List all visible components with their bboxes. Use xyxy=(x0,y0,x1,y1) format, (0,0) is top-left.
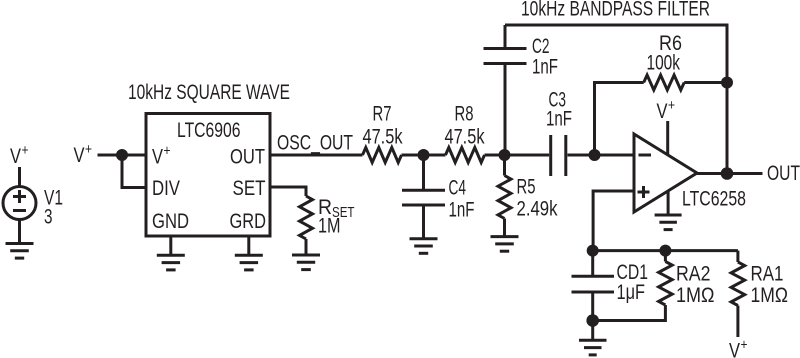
op-amp U2 LTC6258 xyxy=(634,134,697,212)
wire bias rail xyxy=(593,249,738,252)
junction R6/output column xyxy=(721,77,733,89)
svg-text:V: V xyxy=(657,100,668,123)
svg-text:1nF: 1nF xyxy=(449,199,475,222)
wire RA1 to V+ xyxy=(736,306,739,338)
wire RA2 bottom to CD1 bottom xyxy=(593,305,666,321)
wire noninverting input to bias node xyxy=(593,191,634,251)
wire GRD pin to ground xyxy=(247,236,250,255)
resistor R5 xyxy=(498,176,511,219)
svg-text:100k: 100k xyxy=(647,52,681,75)
resistor R6 xyxy=(644,75,685,90)
wire bias node to CD1 xyxy=(591,251,594,277)
wire GND pin to ground xyxy=(169,236,172,255)
wire V+ to V+ pin xyxy=(98,154,147,157)
svg-text:C4: C4 xyxy=(449,177,467,200)
wire RA2 top xyxy=(664,251,667,262)
svg-text:2.49k: 2.49k xyxy=(517,198,558,221)
wire C4 to ground xyxy=(422,205,425,239)
voltage source V1 xyxy=(3,187,36,220)
svg-text:+: + xyxy=(668,97,675,114)
ground (RSET) xyxy=(292,255,320,270)
wire junction to DIV pin xyxy=(122,155,146,188)
resistor RA1 xyxy=(731,262,745,306)
svg-text:R7: R7 xyxy=(373,103,392,126)
resistor RA2 xyxy=(659,262,673,306)
wire R7 to R8 xyxy=(402,154,446,157)
svg-text:GRD: GRD xyxy=(230,210,267,233)
wire node A to C4 xyxy=(422,155,425,190)
net V+ (above V1) xyxy=(10,142,29,168)
svg-text:R5: R5 xyxy=(517,176,536,199)
junction node A xyxy=(418,149,430,161)
ground (op-amp) xyxy=(655,215,682,230)
wire R6 to output column xyxy=(684,81,727,84)
ground (C4) xyxy=(410,239,438,254)
svg-text:RA1: RA1 xyxy=(751,263,784,286)
svg-text:3: 3 xyxy=(44,206,53,229)
wire V+ to V1 xyxy=(18,167,21,187)
wire node B up to C2 xyxy=(504,64,507,156)
net V+ (supply to LTC6906) xyxy=(74,141,93,167)
svg-text:1MΩ: 1MΩ xyxy=(676,284,715,307)
svg-text:SET: SET xyxy=(233,177,266,200)
wire CD1 to ground xyxy=(591,292,594,340)
junction output node xyxy=(721,167,734,180)
resistor R8 xyxy=(446,148,485,163)
svg-text:+: + xyxy=(22,142,29,159)
svg-text:10kHz SQUARE WAVE: 10kHz SQUARE WAVE xyxy=(128,81,290,104)
capacitor CD1 xyxy=(572,276,615,292)
svg-text:47.5k: 47.5k xyxy=(363,126,403,149)
label RSET xyxy=(318,196,355,221)
junction RA2 top xyxy=(659,245,671,257)
wire SET pin to RSET xyxy=(270,187,306,196)
wire node B to R5 xyxy=(503,155,506,176)
capacitor C3 xyxy=(551,135,566,176)
svg-text:V: V xyxy=(729,340,740,358)
resistor R7 xyxy=(363,148,402,163)
svg-text:RA2: RA2 xyxy=(676,263,711,286)
svg-text:10kHz BANDPASS FILTER: 10kHz BANDPASS FILTER xyxy=(521,0,710,21)
svg-text:DIV: DIV xyxy=(152,177,180,200)
svg-text:LTC6906: LTC6906 xyxy=(177,119,241,142)
capacitor C2 xyxy=(484,49,527,64)
svg-text:1MΩ: 1MΩ xyxy=(751,284,789,307)
wire feedback riser xyxy=(595,83,644,156)
svg-text:1nF: 1nF xyxy=(546,108,572,131)
resistor RSET xyxy=(300,196,313,239)
wire op-amp output xyxy=(697,172,763,175)
svg-text:OUT: OUT xyxy=(230,146,265,169)
junction bias node xyxy=(587,245,599,257)
ground (V1) xyxy=(6,244,34,259)
ground (GRD pin) xyxy=(235,255,263,270)
wire V+ to op-amp xyxy=(666,121,669,155)
svg-text:V: V xyxy=(152,146,163,169)
ground (CD1) xyxy=(579,340,607,355)
wire R5 to ground xyxy=(503,219,506,237)
junction node B xyxy=(499,149,511,161)
wire RSET to ground xyxy=(305,239,308,255)
svg-text:1nF: 1nF xyxy=(532,56,558,79)
wire RA1 top xyxy=(736,251,739,262)
wire V1 to ground xyxy=(18,220,21,244)
svg-text:1μF: 1μF xyxy=(617,281,646,304)
wire C2 to top rail xyxy=(504,25,507,49)
svg-text:OSC_OUT: OSC_OUT xyxy=(277,132,353,155)
pin label V+ xyxy=(152,143,171,169)
svg-text:+: + xyxy=(164,143,171,160)
capacitor C4 xyxy=(402,190,445,205)
svg-text:R8: R8 xyxy=(455,103,474,126)
svg-text:+: + xyxy=(741,337,748,354)
svg-text:V: V xyxy=(10,145,21,168)
ground (R5) xyxy=(491,237,519,252)
wire op-amp to ground xyxy=(667,191,670,215)
junction inverting input node xyxy=(589,149,601,161)
wire top rail (C2 to output column) xyxy=(505,25,727,174)
svg-text:LTC6258: LTC6258 xyxy=(682,188,746,211)
net V+ (op-amp supply) xyxy=(657,97,676,123)
svg-text:+: + xyxy=(85,141,92,158)
svg-text:1M: 1M xyxy=(318,215,341,238)
svg-text:OUT: OUT xyxy=(767,162,800,185)
ground (GND pin) xyxy=(157,255,185,270)
svg-text:V: V xyxy=(74,144,85,167)
svg-text:GND: GND xyxy=(152,210,189,233)
wire C3 to inverting input xyxy=(568,154,635,157)
net V+ (RA1 bottom) xyxy=(729,337,748,358)
IC U1 LTC6906 xyxy=(146,114,270,237)
svg-text:47.5k: 47.5k xyxy=(445,126,485,149)
junction CD1 bottom xyxy=(586,314,599,327)
wire R8 to C3 xyxy=(485,154,550,157)
junction V+/DIV tie xyxy=(116,149,128,161)
wire OUT pin to R7 (net OSC_OUT) xyxy=(270,154,363,157)
